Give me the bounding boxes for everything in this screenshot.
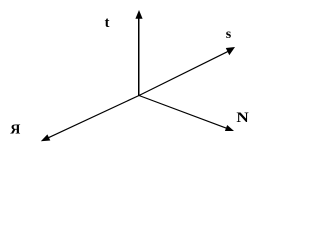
arrowhead: Ya-axis xyxy=(41,134,51,141)
wire: s-axis shaft (up-right) xyxy=(139,50,230,95)
wire: Ya-axis shaft (down-left) xyxy=(45,96,139,140)
wire: vertical t-axis shaft xyxy=(138,16,140,96)
arrowhead: t-axis xyxy=(135,10,142,19)
arrowhead: s-axis xyxy=(226,47,235,55)
svg-text:N: N xyxy=(236,110,249,126)
svg-text:t: t xyxy=(105,15,110,31)
svg-text:Я: Я xyxy=(10,123,20,138)
arrowhead: N-axis xyxy=(225,125,234,131)
svg-text:s: s xyxy=(226,27,232,42)
wire: N-axis shaft (down-right) xyxy=(139,96,228,129)
